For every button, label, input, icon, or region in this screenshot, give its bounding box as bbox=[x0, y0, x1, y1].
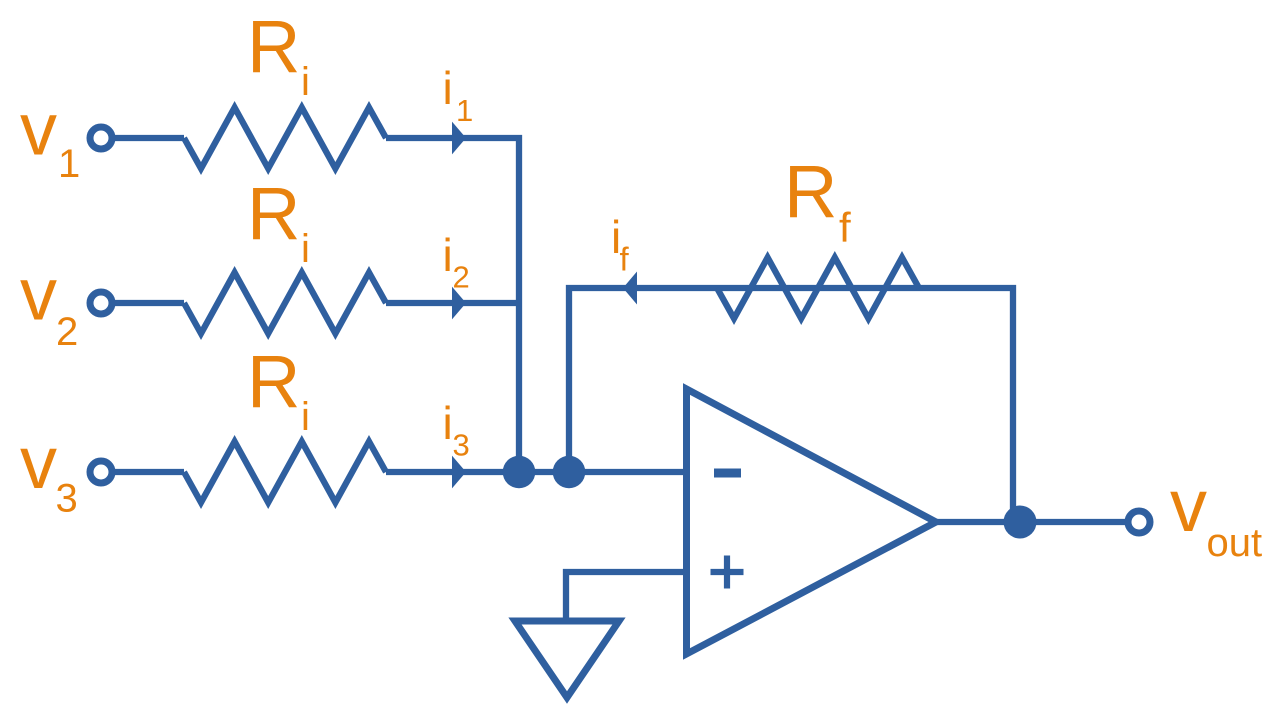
svg-text:i: i bbox=[443, 62, 453, 114]
svg-text:f: f bbox=[839, 204, 851, 251]
svg-text:i: i bbox=[301, 60, 310, 104]
svg-text:1: 1 bbox=[58, 142, 80, 186]
svg-text:R: R bbox=[247, 5, 300, 88]
svg-text:3: 3 bbox=[453, 428, 470, 463]
svg-text:R: R bbox=[247, 340, 300, 423]
svg-text:v: v bbox=[1170, 464, 1207, 547]
svg-text:i: i bbox=[443, 229, 453, 281]
svg-text:1: 1 bbox=[456, 93, 473, 128]
svg-text:v: v bbox=[20, 88, 57, 171]
svg-text:f: f bbox=[620, 241, 630, 278]
svg-text:2: 2 bbox=[453, 260, 470, 295]
svg-text:v: v bbox=[20, 421, 57, 504]
svg-text:R: R bbox=[784, 150, 837, 233]
svg-text:i: i bbox=[443, 397, 453, 449]
svg-text:R: R bbox=[247, 172, 300, 255]
svg-text:out: out bbox=[1207, 521, 1263, 565]
svg-text:i: i bbox=[301, 395, 310, 439]
svg-text:v: v bbox=[20, 253, 57, 336]
svg-text:2: 2 bbox=[56, 310, 78, 354]
svg-text:3: 3 bbox=[56, 477, 78, 521]
svg-text:i: i bbox=[301, 227, 310, 271]
